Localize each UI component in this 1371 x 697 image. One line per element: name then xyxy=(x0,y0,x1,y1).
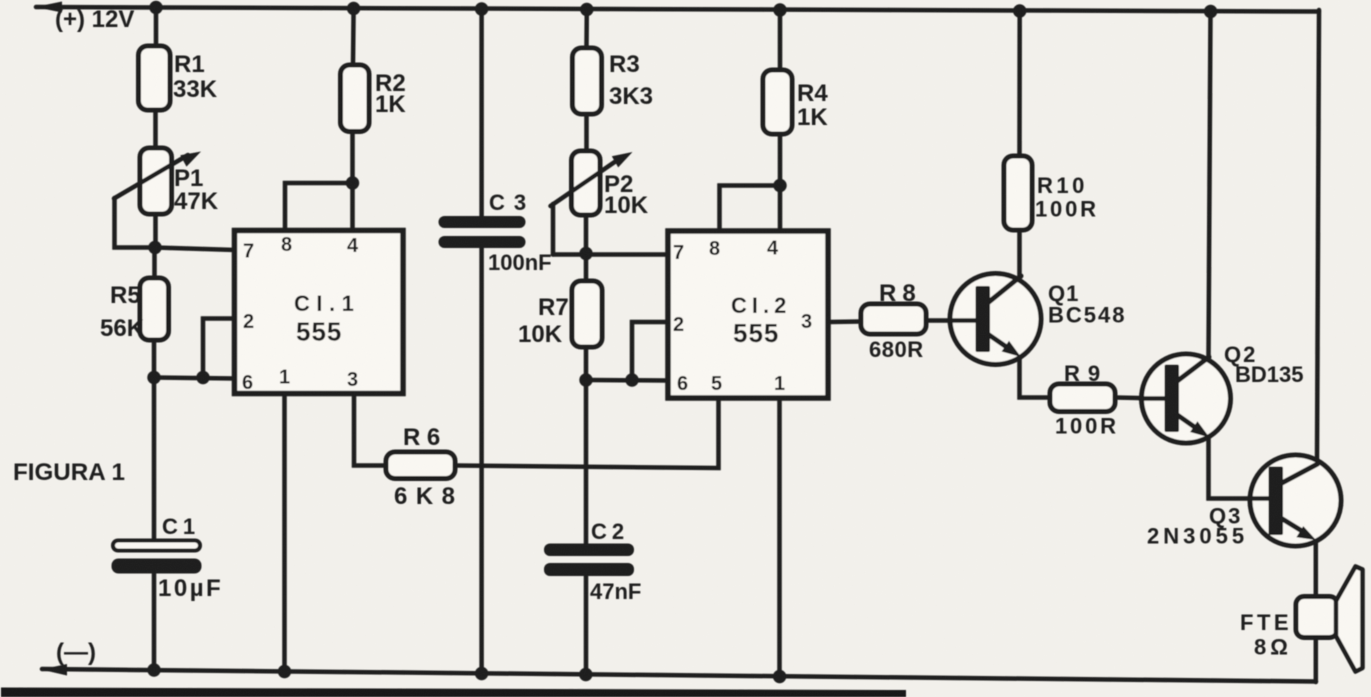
junction node D at R5 bottom xyxy=(147,371,160,384)
wire speaker FTE to ground rail xyxy=(1314,636,1319,682)
capacitor C2 top plate xyxy=(544,544,634,557)
junction node B at C2 top xyxy=(579,373,592,386)
transistor Q3 circle xyxy=(1250,455,1341,546)
wire R5 to node D xyxy=(152,340,157,378)
transistor Q3 collector stroke xyxy=(1280,464,1318,484)
wire R10 to Q1 collector xyxy=(1017,230,1022,278)
wire P2 to node A xyxy=(584,215,589,254)
transistor Q2 collector stroke xyxy=(1176,357,1209,382)
wire CI.2 pin 3 to R8 xyxy=(828,319,861,324)
capacitor C3 bottom plate xyxy=(439,236,526,248)
transistor Q1 base bar xyxy=(976,286,991,352)
scan artifact black strip xyxy=(1,688,906,697)
wire C3 branch lower to ground rail xyxy=(479,247,484,677)
resistor R7 xyxy=(572,281,602,347)
junction top rail at C3 xyxy=(475,2,488,15)
wire C3 branch upper xyxy=(479,8,484,218)
capacitor C2 bottom plate xyxy=(544,563,634,576)
potentiometer P2 body xyxy=(572,151,601,215)
junction ground rail at C3 xyxy=(475,667,488,680)
wire pin 8 bend CI.1 xyxy=(285,183,353,231)
wire CI.1 pin 1 to ground rail xyxy=(282,393,287,672)
junction pin2 bend CI.1 xyxy=(196,371,209,384)
junction top rail at R2 xyxy=(347,2,360,15)
wire node B to C2 xyxy=(584,380,589,545)
wire CI.1 pin 3 down and right to R6 xyxy=(354,393,386,466)
resistor R9 xyxy=(1050,384,1115,412)
wire pin 8 bend CI.2 xyxy=(720,186,781,232)
wire node C to R5 xyxy=(152,248,157,278)
junction node C below P1 xyxy=(148,241,161,254)
speaker FTE horn xyxy=(1336,567,1363,672)
junction ground rail at CI.2 pin1 xyxy=(773,670,786,683)
junction top rail at R3 xyxy=(580,3,593,16)
junction top rail at R10 xyxy=(1013,4,1026,17)
wire R1 to P1 xyxy=(153,110,158,148)
wire P2 wiper vertical to CI.2 pin 7 xyxy=(551,204,556,255)
wire from rail to Q2 collector xyxy=(1209,10,1211,357)
junction pin8/pin4 CI.1 xyxy=(346,176,359,189)
potentiometer P1 body xyxy=(140,148,172,214)
wire from rail to R3 xyxy=(584,9,589,48)
wire from rail through R4 position to CI.2 pin 4 xyxy=(778,9,783,70)
junction top rail at Q2 collector line xyxy=(1204,5,1217,18)
transistor Q3 base bar xyxy=(1269,467,1284,536)
resistor R3 xyxy=(573,48,602,114)
resistor R6 xyxy=(386,452,455,479)
transistor Q3 emitter stroke with arrow xyxy=(1280,518,1302,532)
wire Q3 base inside xyxy=(1249,496,1271,501)
transistor Q1 circle xyxy=(950,274,1041,365)
op-amp U1 IC CI.1 555 body xyxy=(235,231,404,394)
potentiometer P1 wiper arrow xyxy=(114,155,188,199)
wire R3 to P2 xyxy=(584,114,589,151)
junction pin8/pin4 CI.2 xyxy=(773,179,786,192)
junction ground rail at CI.1 pin1 xyxy=(278,665,291,678)
op-amp U2 IC CI.2 555 body xyxy=(668,231,828,398)
wire C2 to ground rail xyxy=(584,575,589,677)
wire Q2 emitter down to Q3 base xyxy=(1209,435,1270,499)
junction node A below P2 xyxy=(579,247,592,260)
wire pin 2 bend CI.1 xyxy=(203,319,236,378)
wire node A to R7 xyxy=(584,254,589,282)
transistor Q1 emitter stroke with arrow xyxy=(987,334,1008,349)
resistor R10 xyxy=(1004,156,1032,230)
wire Q2 base inside xyxy=(1140,396,1167,401)
wire right vertical from rail to Q3 collector xyxy=(1317,10,1319,464)
transistor Q2 base bar xyxy=(1165,365,1180,433)
arrow on ground rail xyxy=(41,664,67,676)
wire node D to C1 xyxy=(152,378,157,542)
node 0V bottom ground rail xyxy=(42,669,1316,682)
transistor Q1 collector stroke xyxy=(987,276,1021,304)
wire P1 to node C xyxy=(153,214,158,248)
junction pin2 bend CI.2 xyxy=(625,373,638,386)
resistor R8 xyxy=(861,304,926,334)
capacitor C1 top plate xyxy=(113,541,200,551)
transistor Q2 emitter stroke with arrow xyxy=(1176,414,1196,428)
wire CI.2 pin 1 to ground rail xyxy=(777,398,782,677)
wire R9 to Q2 base xyxy=(1115,398,1166,399)
node +12V top supply rail xyxy=(36,7,1319,12)
wire P1 wiper bend to node C xyxy=(115,198,156,248)
capacitor C1 bottom plate xyxy=(112,559,202,574)
potentiometer P2 wiper arrow xyxy=(551,159,620,206)
speaker FTE box xyxy=(1296,597,1338,638)
resistor R4 xyxy=(763,70,792,134)
wire R8 to Q1 base xyxy=(926,318,976,323)
transistor Q2 circle xyxy=(1142,354,1231,443)
junction ground rail at C1 xyxy=(147,663,160,676)
junction top rail at R4 xyxy=(773,3,786,16)
wire R7 to node B xyxy=(584,347,589,380)
wire node A to CI.2 pin 7 xyxy=(553,252,668,257)
wire pin 2 bend CI.2 xyxy=(632,322,668,380)
wire from rail to R1 xyxy=(154,6,159,46)
wire Q1 emitter down to R9 xyxy=(1020,354,1051,398)
junction ground rail at C2 xyxy=(579,668,592,681)
capacitor C3 top plate xyxy=(439,216,526,228)
wire from rail to R2 xyxy=(351,8,356,65)
wire R2 to CI.1 pin 4 xyxy=(350,132,355,232)
resistor R1 xyxy=(139,46,171,110)
wire Q3 emitter to speaker FTE xyxy=(1314,537,1319,598)
wire node C to CI.1 pin 7 xyxy=(155,248,236,251)
junction top rail at R1 xyxy=(149,1,162,14)
wire C1 to ground rail xyxy=(152,573,157,671)
resistor R2 xyxy=(341,65,370,132)
resistor R5 xyxy=(140,278,169,340)
wire Q1 base inside xyxy=(948,318,978,323)
wire node D to CI.1 pin 6 xyxy=(154,378,236,379)
arrow on +12V rail xyxy=(35,2,62,13)
wire from rail to R10 xyxy=(1017,10,1022,156)
wire node B to CI.2 pin 6 xyxy=(586,378,668,383)
wire R6 to CI.2 pin 5 xyxy=(455,398,719,468)
